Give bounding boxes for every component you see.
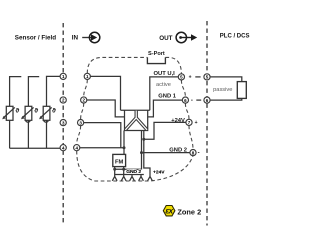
wire block to terminal 5 OUT <box>150 77 179 110</box>
FM module <box>113 154 126 166</box>
device dashed outline bottom <box>77 151 193 181</box>
RTD sensor 3 (4-wire) <box>39 106 52 122</box>
sensor return bus to terminal 4 <box>10 147 61 149</box>
RTD sensor 2 (3-wire) <box>21 106 34 122</box>
svg-text:GND 1: GND 1 <box>158 94 176 100</box>
terminal circle device 2 <box>81 97 87 103</box>
terminal circle device 7 <box>186 119 192 125</box>
svg-text:S-Port: S-Port <box>148 51 165 57</box>
isolation block top edge <box>121 109 150 111</box>
terminal circle device 4 <box>74 145 80 151</box>
node FM pin1 <box>113 168 116 171</box>
wire +24V terminal 7 <box>144 122 186 139</box>
wire terminal 3 <box>84 123 121 148</box>
RTD1 top wire <box>10 77 22 107</box>
terminal circle device 8 <box>190 150 196 156</box>
device dashed outline top <box>87 57 147 73</box>
svg-text:-: - <box>191 98 193 104</box>
svg-text:GND 2: GND 2 <box>126 169 141 175</box>
RTD1 bottom wire <box>9 120 11 148</box>
RTD2 top wire <box>28 77 39 107</box>
svg-text:ϑ: ϑ <box>15 107 19 114</box>
terminal circle field 3 <box>60 120 66 126</box>
PLC boundary dashed line <box>206 21 208 226</box>
svg-text:OUT U,I: OUT U,I <box>154 71 176 77</box>
node FM pin2 <box>122 168 125 171</box>
svg-text:+24V: +24V <box>153 169 165 175</box>
lower bottom rail <box>115 174 144 176</box>
terminal circle field 4 <box>60 145 66 151</box>
device dashed outline terminal curves left <box>84 80 88 97</box>
svg-text:-: - <box>198 151 200 157</box>
svg-text:IN: IN <box>72 35 79 42</box>
terminal circle device 1 <box>84 73 90 79</box>
wire terminal 2 to block <box>87 100 125 117</box>
svg-text:Zone 2: Zone 2 <box>177 207 201 216</box>
terminal circle PLC 6 <box>204 97 210 103</box>
terminal circle field 1 <box>60 73 66 79</box>
ground arrow +24V pin <box>148 176 153 180</box>
Ex hexagon logo <box>163 206 175 216</box>
3-way isolation symbol <box>125 111 147 130</box>
svg-text:+24V: +24V <box>171 118 185 124</box>
isolation block body <box>125 110 148 130</box>
RTD3 top wire to terminal 1 <box>47 76 61 106</box>
RTD3 bottom wire <box>46 120 48 148</box>
svg-text:+: + <box>189 74 192 80</box>
RTD2 bottom wire <box>27 120 29 148</box>
S-Port connector <box>147 57 165 63</box>
svg-text:Sensor / Field: Sensor / Field <box>15 35 56 42</box>
terminal circle device 3 <box>78 120 84 126</box>
passive load resistor <box>237 82 246 99</box>
power rail vertical GND2 <box>141 131 143 170</box>
ground arrow rail pin A <box>130 175 135 181</box>
svg-text:FM: FM <box>115 159 124 165</box>
svg-text:GND 2: GND 2 <box>169 148 187 154</box>
wire terminal 4 <box>80 147 124 149</box>
terminal circle PLC 5 <box>204 74 210 80</box>
svg-text:PLC / DCS: PLC / DCS <box>220 34 250 40</box>
block to FM module wire <box>123 131 125 155</box>
GND2 bottom rail <box>115 168 142 170</box>
node junction +24V <box>142 138 145 141</box>
node junction T4 <box>123 146 126 149</box>
device dashed outline terminal curves right <box>181 80 185 97</box>
svg-text:passive: passive <box>213 87 232 93</box>
RTD sensor 1 (2-wire) <box>2 106 15 120</box>
node junction GND2 <box>140 151 143 154</box>
terminal circle field 2 <box>60 97 66 103</box>
svg-text:OUT: OUT <box>159 35 172 42</box>
terminal circle device 5 <box>178 74 184 80</box>
svg-text:ϑ: ϑ <box>34 107 38 114</box>
link dash terminal 6 to PLC <box>196 99 201 101</box>
PLC passive load circuit <box>210 77 242 100</box>
svg-text:+: + <box>195 120 198 126</box>
wire block to terminal 6 GND1 <box>148 100 183 117</box>
wire GND2 terminal 8 <box>142 152 190 154</box>
field boundary dashed line <box>62 23 64 224</box>
wire terminal 1 to block <box>90 76 120 110</box>
power rail vertical +24V <box>144 131 150 177</box>
svg-text:active: active <box>156 82 171 88</box>
svg-text:ϑ: ϑ <box>52 107 56 114</box>
terminal circle device 6 <box>182 97 188 103</box>
svg-text:εx: εx <box>165 207 173 216</box>
FM pin 2 with ground arrow <box>121 167 126 181</box>
ground arrow rail pin B <box>139 175 144 181</box>
link dash terminal 5 to PLC <box>195 76 200 78</box>
FM pin 1 with ground arrow <box>112 167 117 181</box>
